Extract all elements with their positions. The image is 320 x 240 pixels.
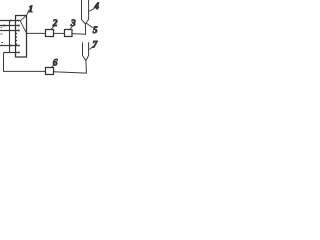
- input line 1: [0, 19, 20, 21]
- joint stem and bottom wire right: [54, 61, 87, 74]
- electrode wire: [84, 24, 86, 35]
- nozzle cone right wall: [85, 0, 88, 24]
- box B2: [46, 30, 54, 37]
- label 7: [89, 40, 98, 50]
- label 3 pointer: [70, 19, 76, 29]
- switch wiper: [20, 21, 26, 33]
- wire box1 to box2: [27, 32, 46, 34]
- input line 5 fed from return wire: [4, 51, 20, 53]
- svg-text:7: 7: [93, 40, 99, 50]
- input bus vertical: [9, 20, 11, 53]
- return wire bottom and left riser: [4, 53, 46, 72]
- ellipsis dots: [15, 33, 17, 45]
- wire box3 to electrode: [72, 33, 86, 36]
- box B6: [46, 68, 54, 75]
- label 4: [89, 2, 99, 12]
- wire box2 to box3: [54, 32, 65, 34]
- input line 4: [0, 44, 20, 46]
- box B3: [65, 30, 73, 37]
- svg-text:3: 3: [70, 19, 76, 29]
- label 5: [86, 23, 98, 36]
- wiper upper arm to corner: [20, 16, 26, 21]
- scan specks: [1, 27, 4, 43]
- svg-text:5: 5: [93, 26, 98, 36]
- label 2 pointer: [51, 19, 57, 29]
- nozzle cone left wall: [82, 0, 86, 24]
- workpiece V-groove: [83, 42, 89, 60]
- svg-text:4: 4: [93, 2, 99, 12]
- label 6 pointer: [52, 58, 58, 68]
- input line 3: [0, 30, 20, 32]
- svg-text:2: 2: [52, 19, 58, 29]
- svg-text:6: 6: [53, 58, 58, 68]
- input line 2 with left arrow: [0, 24, 20, 26]
- label 1: [27, 5, 34, 15]
- box U1 selector unit: [16, 16, 27, 58]
- svg-text:1: 1: [28, 5, 33, 15]
